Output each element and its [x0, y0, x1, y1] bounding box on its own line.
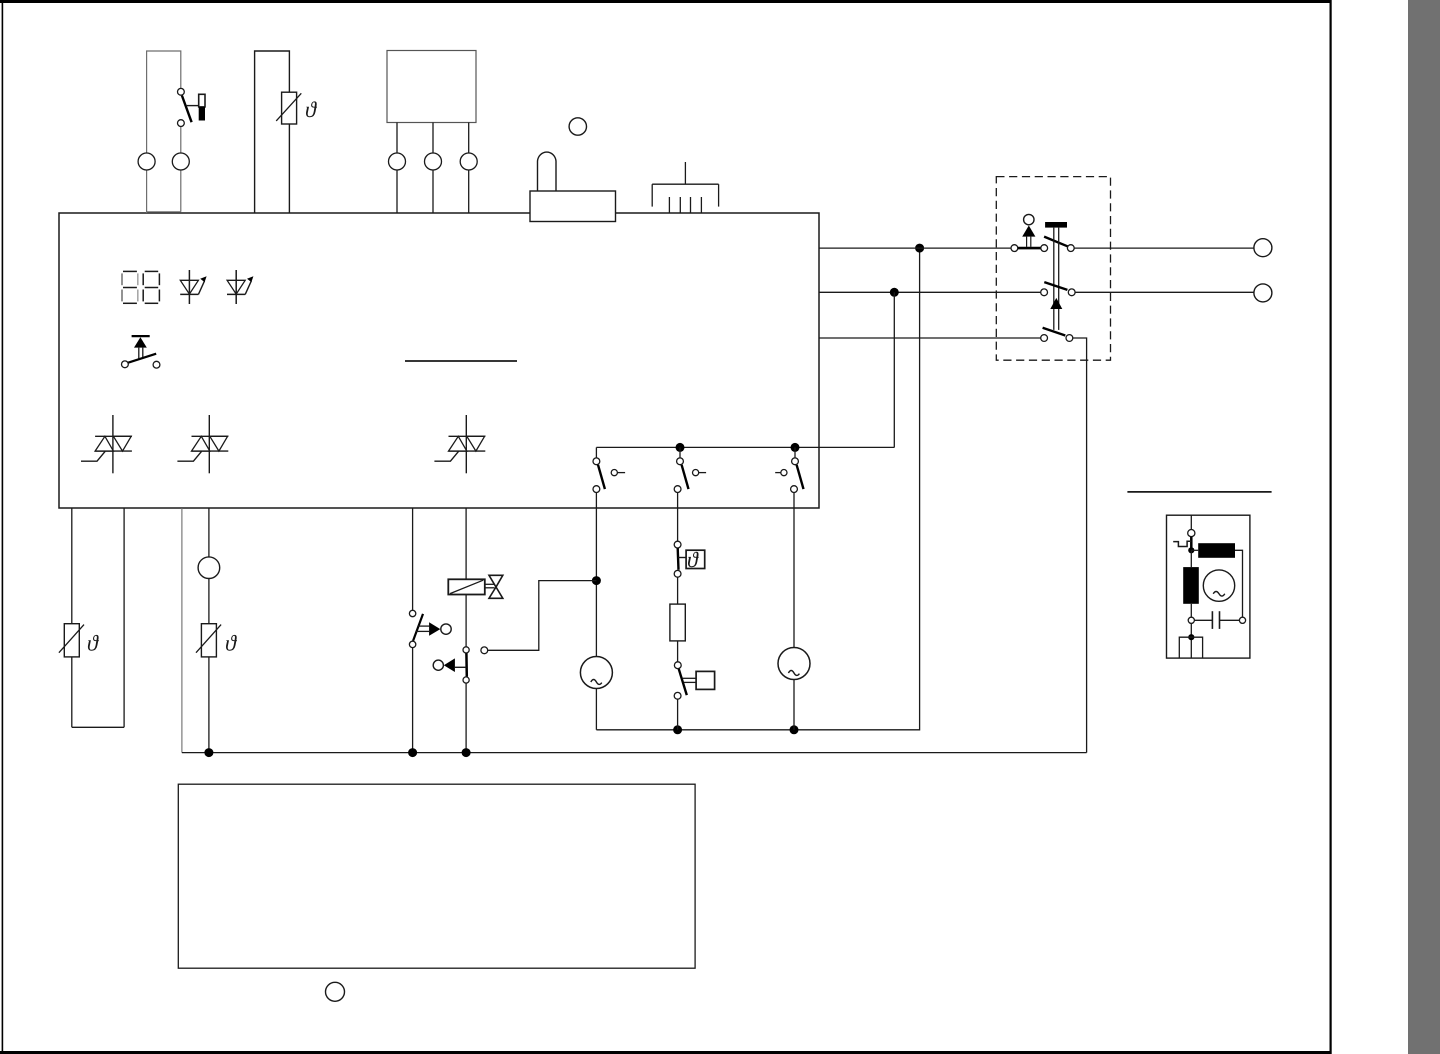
phase line L1 wire left part [819, 247, 1011, 249]
outside-sensor loop wire right leg [123, 508, 125, 727]
actuator arrow on shaft [1050, 298, 1062, 309]
relay contact K1c (col C) [775, 458, 803, 493]
neutral drop wire from box [181, 508, 183, 753]
thermistor R4 (outside sensor) [59, 624, 84, 657]
fuse holder F1 body [530, 191, 616, 222]
triac V2 [177, 415, 228, 473]
main switch contact L3 [1041, 328, 1073, 342]
node L2 rail drop [890, 288, 899, 297]
wire col B to resistor [677, 577, 679, 604]
page frame right line [1330, 0, 1332, 1054]
separator line above PSU [1127, 491, 1271, 493]
page frame top bar [0, 0, 1331, 3]
PSU enclosure box [1167, 515, 1250, 658]
wire coil to flame contact [465, 595, 467, 647]
control unit main box [59, 213, 819, 508]
PSU node 2 [1188, 634, 1194, 640]
gas valve body [485, 575, 503, 598]
main switch contact L2 [1041, 282, 1075, 296]
7-segment display digit 1 [122, 271, 138, 303]
wire drop from L2 to feed rail [893, 292, 895, 447]
relay contact K1a (col A) [593, 458, 625, 493]
wire col A down to node [595, 493, 597, 657]
wire col B upper [677, 493, 679, 542]
ionisation electrode terminal [481, 647, 488, 654]
thermal actuator element of S1 [199, 94, 205, 120]
node bus2 col B [673, 725, 682, 734]
legend box bottom left [178, 784, 695, 968]
wire PSU top [1190, 515, 1192, 529]
bus2 wire (lamp return) [596, 248, 919, 730]
outside-sensor loop wire left leg [71, 508, 73, 727]
flame supervision contact S6 [433, 647, 469, 683]
node on feed rail col B [676, 443, 685, 452]
internal link line [405, 360, 517, 362]
legend circle marker [326, 982, 345, 1001]
dropper resistor R7 (filled) [1183, 567, 1199, 604]
ignition electrode branch wire upper [412, 508, 414, 610]
push button actuator of Q1 [1045, 222, 1067, 330]
node bus3 sensor branch [204, 748, 213, 757]
fuse holder F1 dome [538, 152, 557, 191]
push button S2 [122, 336, 160, 368]
bus3 neutral return wire [182, 752, 1087, 754]
terminal circle on B3 leg 2 [425, 153, 442, 170]
phase line L3 wire left part [819, 337, 1041, 339]
wire R7 to cap node [1190, 604, 1192, 617]
flame indicator lamp E2 [778, 648, 810, 680]
relay contact K1b (col B) [674, 458, 706, 493]
LED D2 [227, 270, 253, 304]
PSU node 1 [1188, 547, 1194, 553]
wire L1 to terminal [1074, 247, 1254, 249]
wire L2 to terminal [1075, 291, 1254, 293]
node bus2 on phase line L1 [915, 244, 924, 253]
B3 leg 2 [432, 123, 434, 214]
node bus3 electrode branch [408, 748, 417, 757]
wire valve branch to bus3 [465, 683, 467, 753]
boiler sensor branch wire upper [208, 508, 210, 557]
node ignition transformer top [592, 576, 601, 585]
theta label of R5 [226, 635, 237, 651]
capacitor C1 left terminal [1188, 617, 1194, 623]
triac V3 [434, 415, 485, 473]
LED D1 [180, 270, 206, 304]
capacitor C1 right terminal [1239, 617, 1245, 623]
resistor R3 [670, 604, 685, 641]
main switch L1 right terminal [1067, 245, 1074, 252]
PSU step actuator symbol [1173, 541, 1191, 546]
wire col A lamp to bus2 [595, 689, 597, 730]
capacitor C1 [1194, 611, 1239, 629]
AC source symbol G1 [1203, 570, 1234, 601]
wire col C lamp to bus2 [793, 680, 795, 730]
theta label of R2 [306, 101, 317, 117]
7-segment display digit 2 [143, 271, 159, 303]
terminal circle L1 out [1254, 239, 1272, 257]
page frame bottom bar [0, 1051, 1331, 1054]
spark gap contact S5 with arrow [409, 610, 451, 647]
thermistor R2 (on B2) [276, 92, 301, 124]
wire col B to bus2 [677, 699, 679, 730]
wire internal feed rail [596, 446, 894, 448]
PSU input terminal circle [1188, 530, 1195, 537]
wire feed rail drop to switch A [595, 447, 597, 458]
wire col B resistor to contact [677, 641, 679, 662]
terminal circle on B1 left leg [138, 153, 155, 170]
B3 leg 3 [468, 123, 470, 214]
wire node1 down [1190, 550, 1192, 567]
wire cap node down [1190, 623, 1192, 658]
wire R6 to right leg [1235, 550, 1243, 617]
thermostat contact S3 with theta box [674, 541, 705, 577]
wire thermistor to bus3 [208, 657, 210, 753]
theta label of R4 [88, 635, 99, 651]
thermistor R5 (boiler sensor) [196, 624, 221, 657]
terminal circle L2 out [1254, 284, 1272, 302]
sensor unit B2 outline (second tall rect) [255, 51, 290, 213]
pressure switch S4 with box [674, 662, 714, 699]
main switch dashed enclosure Q1 [996, 177, 1110, 361]
wire electrode branch to bus3 [412, 648, 414, 753]
display module B3 (rect with 3 legs) [387, 51, 476, 123]
gas valve branch wire upper [465, 508, 467, 580]
wire sensor head to thermistor [208, 579, 210, 624]
connector X2 comb symbol [652, 162, 718, 213]
gas valve coil Y1 [448, 579, 485, 594]
B3 leg 1 [396, 123, 398, 214]
node on feed rail col C [791, 443, 800, 452]
wire col C down [793, 493, 795, 648]
wire node to series resistor [1191, 549, 1198, 551]
thermal overload contact Q1.1 on L1 [1011, 245, 1048, 252]
terminal circle on B1 right leg [172, 153, 189, 170]
triac V1 [81, 415, 132, 473]
ignition spark generator E1 [580, 657, 612, 689]
operating unit B1 outline (tall rect top-left) [147, 51, 181, 213]
wire L3 to bus3 [1073, 338, 1087, 753]
main switch blade L1 [1044, 237, 1068, 247]
terminal circle X1 [569, 118, 586, 135]
trip indicator of Q1.1 [1022, 214, 1035, 246]
node bus3 valve branch [462, 748, 471, 757]
wire flame signal (from ionisation electrode) [488, 581, 597, 651]
gray sidebar [1408, 0, 1440, 1054]
phase line L2 wire left part [819, 291, 1041, 293]
thermal cutout switch S1 [178, 88, 199, 126]
PSU bottom element box [1179, 637, 1202, 658]
wire feed rail drop to switch C [794, 447, 796, 458]
sensor head circle B4 [198, 557, 220, 579]
PSU switch blade [1190, 537, 1193, 551]
outside-sensor loop wire bottom [72, 726, 124, 728]
terminal circle on B3 leg 3 [460, 153, 477, 170]
page frame left line [2, 0, 4, 1054]
wire feed rail drop to switch B [679, 447, 681, 458]
series resistor R6 (filled) [1198, 543, 1235, 558]
terminal circle on B3 leg 1 [389, 153, 406, 170]
node bus2 col C [790, 725, 799, 734]
